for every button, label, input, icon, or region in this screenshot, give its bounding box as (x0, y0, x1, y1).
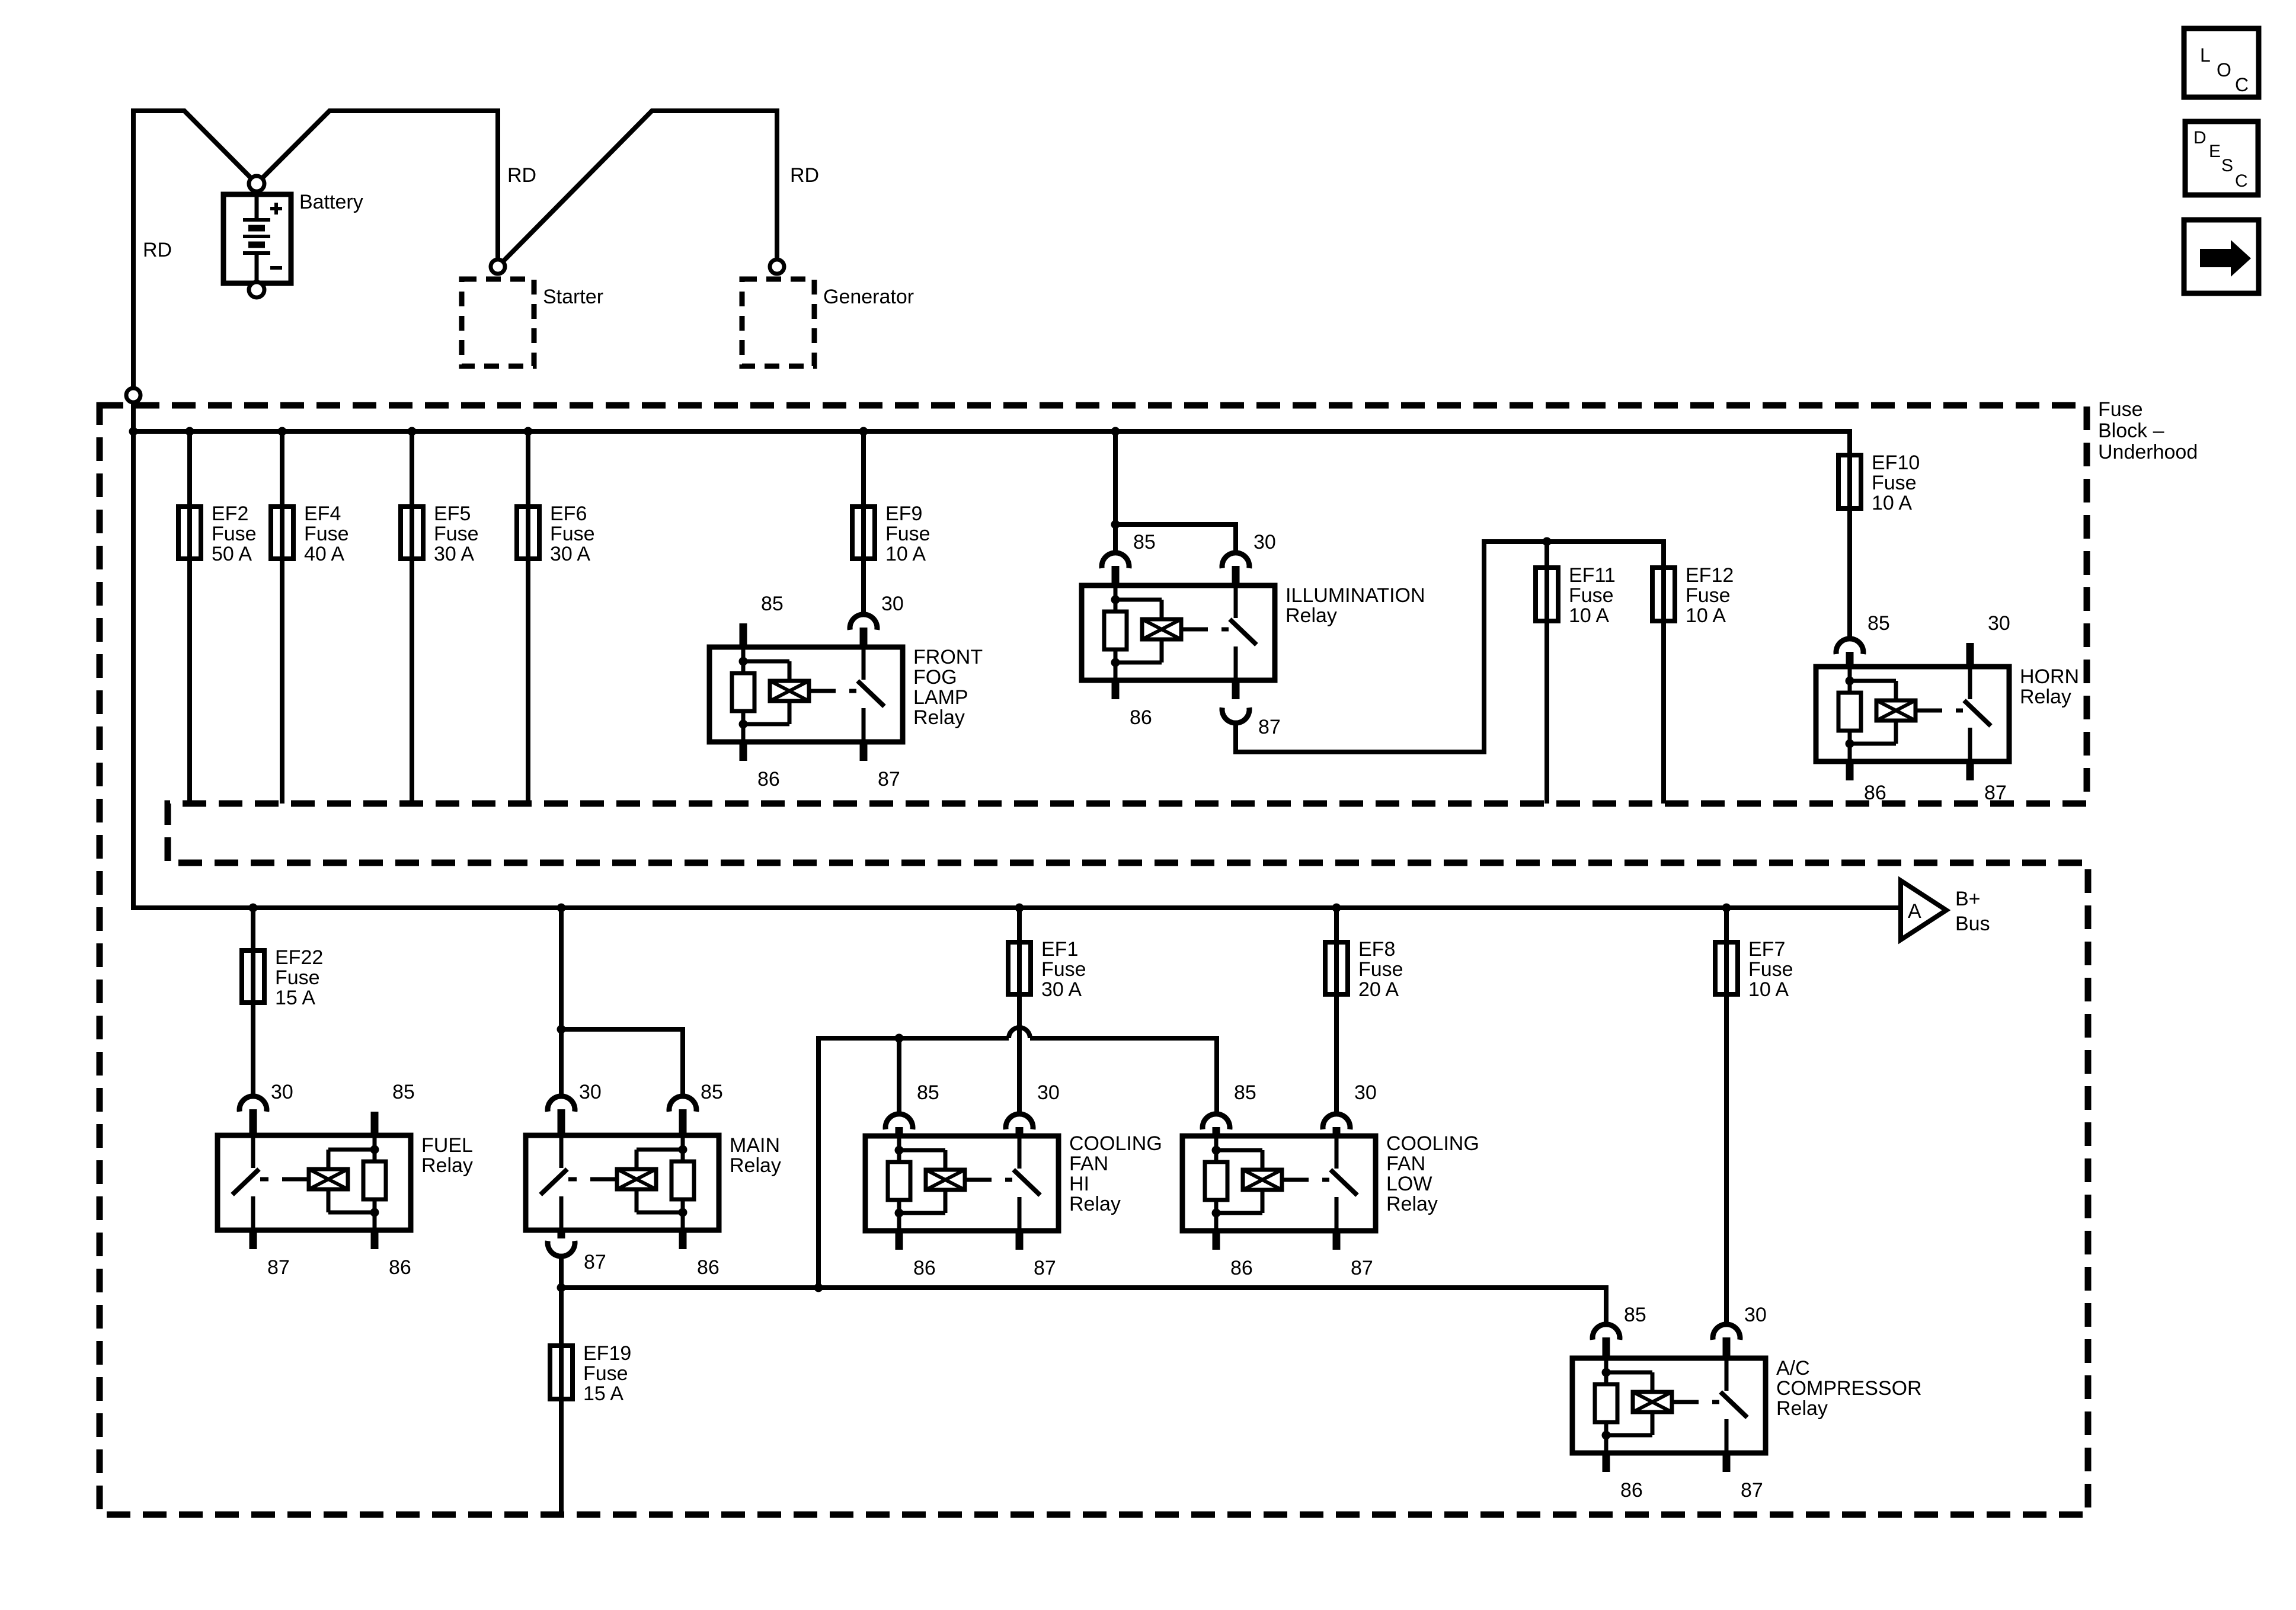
svg-text:Relay: Relay (2020, 686, 2071, 708)
relay A/C COMPRESSOR coil circuit (1604, 1358, 1609, 1372)
connector arc front fog relay pin 30 (850, 614, 877, 630)
wire EF6 column (526, 431, 530, 804)
svg-text:30: 30 (271, 1081, 293, 1103)
junction on upper bus x=320 (186, 427, 194, 436)
relay HORN pin 86 stub (1846, 761, 1854, 780)
connector arc main pin 30 (548, 1096, 575, 1112)
svg-text:Relay: Relay (913, 706, 965, 729)
main pin 87 connector arc and wire (548, 1241, 575, 1256)
svg-text:30: 30 (1744, 1304, 1767, 1326)
relay MAIN pin 86 stub (679, 1230, 687, 1249)
svg-text:Fuse: Fuse (1872, 472, 1917, 494)
legend box arrow (2184, 220, 2259, 293)
legend box DESC (2185, 121, 2258, 195)
svg-text:86: 86 (1230, 1257, 1253, 1279)
junction main 87 / EF19 (557, 1283, 566, 1292)
svg-text:C: C (2235, 171, 2248, 191)
svg-text:EF9: EF9 (885, 502, 922, 525)
svg-text:EF2: EF2 (212, 502, 248, 525)
horn relay pin 30 stub (1966, 643, 1974, 667)
connector arc horn pin 85 (1836, 639, 1863, 654)
svg-text:10 A: 10 A (885, 543, 926, 565)
svg-text:EF7: EF7 (1748, 938, 1785, 961)
svg-text:EF6: EF6 (550, 502, 587, 525)
svg-text:Fuse: Fuse (885, 523, 930, 545)
wire RD battery positive feed to fuse block (133, 111, 1900, 908)
terminal where RD feed enters fuse block (126, 388, 140, 402)
svg-text:FRONT: FRONT (913, 646, 983, 668)
relay HORN box (1816, 667, 2009, 761)
svg-text:15 A: 15 A (275, 987, 315, 1009)
svg-text:87: 87 (1258, 716, 1281, 738)
svg-text:10 A: 10 A (1872, 492, 1912, 514)
relay FUEL box (218, 1135, 411, 1230)
svg-text:LOW: LOW (1386, 1173, 1432, 1195)
svg-text:87: 87 (1034, 1257, 1056, 1279)
svg-text:EF22: EF22 (275, 946, 323, 969)
svg-text:Fuse: Fuse (1358, 958, 1403, 981)
wire EF7 column to a/c compressor pin 30 (1724, 908, 1729, 1324)
wire EF12 column (1661, 542, 1666, 804)
connector arc a/c compressor pin 30 (1713, 1324, 1740, 1340)
svg-text:Starter: Starter (543, 286, 603, 308)
svg-text:30: 30 (1354, 1081, 1377, 1104)
wire EF8 column to cooling fan low pin 30 (1334, 908, 1339, 1114)
svg-text:B+: B+ (1955, 888, 1981, 910)
legend box LOC (2184, 28, 2259, 97)
svg-text:40 A: 40 A (304, 543, 344, 565)
junction illumination feed split (1111, 520, 1120, 529)
svg-text:EF19: EF19 (583, 1342, 631, 1365)
svg-text:30: 30 (1037, 1081, 1060, 1104)
svg-text:30 A: 30 A (550, 543, 590, 565)
svg-text:Fuse: Fuse (304, 523, 349, 545)
svg-text:Fuse: Fuse (212, 523, 257, 545)
wire bus inside fuse block upper row (133, 431, 1850, 455)
svg-text:E: E (2209, 142, 2221, 161)
relay COOLING FAN HI box (865, 1136, 1059, 1231)
svg-text:Relay: Relay (1069, 1193, 1121, 1215)
svg-text:86: 86 (1620, 1479, 1643, 1502)
relay ILLUMINATION box (1082, 585, 1275, 680)
relay HORN pin 87 stub (1966, 761, 1974, 780)
svg-text:30: 30 (1253, 531, 1276, 553)
svg-text:Battery: Battery (299, 191, 363, 213)
svg-text:30: 30 (579, 1081, 602, 1103)
svg-text:86: 86 (389, 1256, 411, 1279)
junction on upper bus x=476 (278, 427, 287, 436)
svg-text:87: 87 (878, 768, 900, 790)
relay A/C COMPRESSOR pin 87 stub (1723, 1453, 1731, 1472)
connector arc main pin 85 (669, 1096, 696, 1112)
battery minus sign (270, 266, 282, 270)
relay FUEL coil circuit (373, 1135, 377, 1150)
svg-text:HI: HI (1069, 1173, 1089, 1195)
wire EF5 column (410, 431, 414, 804)
fuse EF5 (401, 507, 423, 559)
wire to illumination pin 85 (1113, 524, 1118, 553)
svg-text:COMPRESSOR: COMPRESSOR (1776, 1377, 1922, 1400)
relay ILLUMINATION switch (1234, 585, 1238, 618)
svg-text:Fuse: Fuse (550, 523, 595, 545)
svg-text:87: 87 (1741, 1479, 1763, 1502)
svg-text:A/C: A/C (1776, 1357, 1810, 1379)
fuse EF6 (517, 507, 539, 559)
starter terminal (491, 260, 505, 274)
svg-text:LAMP: LAMP (913, 686, 968, 709)
connector arc cooling fan low pin 30 (1323, 1114, 1350, 1129)
relay COOLING FAN LOW pin 87 stub (1333, 1231, 1341, 1250)
svg-text:85: 85 (917, 1081, 939, 1104)
relay MAIN pin 87 stub (558, 1230, 565, 1238)
relay COOLING FAN HI switch (1018, 1136, 1022, 1169)
svg-text:Fuse: Fuse (1041, 958, 1086, 981)
wire net to cooling fan relay coils (818, 1038, 1009, 1288)
relay FUEL pin 86 stub (371, 1230, 379, 1249)
wire EF9 column to front fog lamp relay pin 30 (861, 431, 866, 614)
svg-text:86: 86 (1130, 706, 1152, 729)
fuse EF19 (550, 1346, 573, 1399)
svg-text:86: 86 (913, 1257, 936, 1279)
connector arc cooling fan low pin 85 (1203, 1114, 1230, 1129)
battery plus sign (270, 207, 282, 210)
junction EF11 tap (1543, 537, 1552, 546)
svg-text:RD: RD (143, 239, 172, 261)
svg-text:Fuse: Fuse (2098, 398, 2143, 421)
junction on upper bus x=1882 (1111, 427, 1120, 436)
svg-text:EF12: EF12 (1686, 564, 1734, 587)
wire to main pin 30 (559, 1029, 564, 1096)
fuse EF1 (1008, 942, 1031, 994)
svg-text:Relay: Relay (1285, 604, 1337, 627)
relay COOLING FAN LOW pin 86 stub (1213, 1231, 1220, 1250)
fuse EF10 (1838, 455, 1861, 508)
connector arc fuel pin 30 (239, 1096, 267, 1112)
svg-text:Generator: Generator (823, 286, 914, 308)
junction main feed split (557, 1025, 566, 1034)
svg-text:Bus: Bus (1955, 913, 1990, 935)
battery bottom terminal (249, 282, 264, 297)
svg-text:86: 86 (697, 1256, 720, 1279)
fuse EF9 (852, 507, 875, 559)
svg-text:EF1: EF1 (1041, 938, 1078, 961)
svg-text:MAIN: MAIN (730, 1134, 780, 1157)
wire RD battery to starter (257, 111, 498, 267)
relay COOLING FAN HI pin 86 stub (896, 1231, 903, 1250)
svg-text:Fuse: Fuse (1569, 584, 1614, 607)
svg-text:10 A: 10 A (1686, 604, 1726, 627)
svg-text:87: 87 (584, 1251, 606, 1273)
svg-text:87: 87 (1984, 782, 2007, 804)
svg-text:L: L (2200, 44, 2211, 66)
relay FRONT FOG LAMP coil circuit (741, 647, 746, 661)
junction on B+ bus x=947 (557, 904, 566, 913)
svg-text:FUEL: FUEL (421, 1134, 473, 1157)
junction cooling fan hi 85 tap (895, 1034, 904, 1043)
svg-text:85: 85 (1868, 612, 1890, 635)
svg-text:Fuse: Fuse (434, 523, 479, 545)
svg-text:30 A: 30 A (434, 543, 474, 565)
relay FUEL pin 87 stub (250, 1230, 257, 1249)
relay A/C COMPRESSOR switch (1725, 1358, 1729, 1391)
wire main relay feed from B+ bus (559, 908, 564, 1029)
svg-text:Relay: Relay (730, 1154, 781, 1177)
junction on upper bus x=695 (408, 427, 417, 436)
svg-text:Fuse: Fuse (275, 966, 320, 989)
relay HORN coil circuit (1848, 667, 1852, 681)
svg-text:FAN: FAN (1386, 1153, 1425, 1175)
svg-text:D: D (2193, 128, 2207, 148)
svg-text:COOLING: COOLING (1069, 1132, 1162, 1155)
fuse block underhood dashed outline (100, 405, 2088, 1515)
wire EF10 column to horn relay pin 85 (1847, 455, 1852, 639)
svg-text:30 A: 30 A (1041, 978, 1082, 1001)
relay A/C COMPRESSOR box (1572, 1358, 1766, 1453)
relay A/C COMPRESSOR pin 86 stub (1603, 1453, 1610, 1472)
wire EF2 column (187, 431, 192, 804)
relay FUEL switch (251, 1135, 255, 1168)
svg-text:EF8: EF8 (1358, 938, 1395, 961)
wire EF22 column to fuel relay pin 30 (251, 908, 255, 1096)
relay COOLING FAN HI pin 87 stub (1016, 1231, 1024, 1250)
relay MAIN coil circuit (681, 1135, 685, 1150)
junction on upper bus x=225 (129, 427, 138, 436)
fuse EF12 (1652, 568, 1675, 621)
front fog relay pin 85 stub (740, 623, 747, 647)
wire RD starter to generator (498, 111, 777, 267)
svg-text:Fuse: Fuse (1748, 958, 1793, 981)
relay COOLING FAN LOW switch (1335, 1136, 1339, 1169)
svg-text:Block –: Block – (2098, 420, 2164, 442)
relay HORN switch (1968, 667, 1972, 699)
svg-text:Fuse: Fuse (1686, 584, 1731, 607)
fuse EF11 (1536, 568, 1558, 621)
junction on B+ bus x=1720 (1015, 904, 1024, 913)
wire EF19 column (559, 1288, 564, 1515)
connector arc a/c compressor pin 85 (1593, 1324, 1620, 1340)
wire EF1 column to cooling fan hi pin 30 (1017, 908, 1022, 1114)
fuel relay pin 85 stub (371, 1112, 379, 1135)
svg-text:87: 87 (267, 1256, 290, 1279)
svg-text:20 A: 20 A (1358, 978, 1399, 1001)
svg-text:RD: RD (507, 164, 536, 187)
svg-text:85: 85 (1234, 1081, 1256, 1104)
svg-text:Relay: Relay (421, 1154, 473, 1177)
relay MAIN switch (559, 1135, 564, 1168)
junction netA riser (814, 1283, 823, 1292)
starter dashed box (462, 279, 534, 366)
fuse EF2 (178, 507, 201, 559)
relay COOLING FAN HI coil circuit (897, 1136, 901, 1150)
svg-text:85: 85 (392, 1081, 415, 1103)
wire hop over EF1 column (1009, 1028, 1030, 1038)
svg-text:Relay: Relay (1776, 1397, 1828, 1420)
generator terminal (770, 260, 784, 274)
fuse EF22 (242, 950, 264, 1003)
junction on B+ bus x=2913 (1722, 904, 1731, 913)
svg-text:30: 30 (1988, 612, 2010, 635)
svg-text:50 A: 50 A (212, 543, 252, 565)
relay ILLUMINATION coil circuit (1114, 585, 1118, 600)
relay COOLING FAN LOW coil circuit (1214, 1136, 1219, 1150)
svg-text:C: C (2235, 74, 2249, 95)
svg-text:10 A: 10 A (1748, 978, 1789, 1001)
junction on upper bus x=1457 (859, 427, 868, 436)
svg-text:S: S (2221, 156, 2233, 175)
wire branch to main pin 85 (561, 1029, 683, 1096)
svg-text:15 A: 15 A (583, 1382, 623, 1405)
fuse EF7 (1715, 942, 1738, 994)
svg-text:FAN: FAN (1069, 1153, 1108, 1175)
relay FRONT FOG LAMP box (709, 647, 903, 742)
svg-text:EF11: EF11 (1569, 564, 1616, 587)
svg-text:Fuse: Fuse (583, 1362, 628, 1385)
svg-text:85: 85 (1624, 1304, 1646, 1326)
wire EF4 column (280, 431, 284, 804)
wire EF11 column (1544, 542, 1549, 804)
svg-text:30: 30 (881, 593, 904, 615)
wire cooling fan hi pin 85 drop (897, 1038, 901, 1114)
svg-text:Underhood: Underhood (2098, 441, 2198, 463)
svg-text:EF4: EF4 (304, 502, 341, 525)
relay ILLUMINATION pin 87 stub (1232, 680, 1240, 699)
svg-text:O: O (2217, 59, 2231, 81)
battery top terminal (249, 176, 264, 191)
connector arc illumination pin 30 (1222, 553, 1249, 568)
relay FRONT FOG LAMP pin 86 stub (740, 742, 747, 761)
battery G6 symbol (223, 194, 291, 283)
svg-text:EF10: EF10 (1872, 452, 1920, 474)
relay COOLING FAN LOW box (1182, 1136, 1376, 1231)
svg-text:HORN: HORN (2020, 665, 2079, 688)
svg-text:FOG: FOG (913, 666, 957, 689)
junction on upper bus x=891 (524, 427, 533, 436)
connector arc cooling fan hi pin 85 (885, 1114, 913, 1129)
svg-text:RD: RD (790, 164, 819, 187)
illumination pin 87 connector arc and wire (1222, 708, 1249, 723)
junction on B+ bus x=2255 (1332, 904, 1341, 913)
svg-text:10 A: 10 A (1569, 604, 1609, 627)
svg-text:COOLING: COOLING (1386, 1132, 1479, 1155)
fuse EF4 (271, 507, 293, 559)
svg-text:A: A (1908, 900, 1921, 923)
wire net from main 87 to a/c compressor pin 85 (561, 1288, 1606, 1324)
relay MAIN box (526, 1135, 719, 1230)
fuse EF8 (1325, 942, 1348, 994)
wire branch to illumination pin 30 (1115, 524, 1236, 553)
svg-text:85: 85 (701, 1081, 723, 1103)
svg-text:ILLUMINATION: ILLUMINATION (1285, 584, 1425, 607)
generator dashed box (742, 279, 814, 366)
svg-text:86: 86 (757, 768, 780, 790)
svg-text:87: 87 (1351, 1257, 1373, 1279)
svg-text:86: 86 (1864, 782, 1886, 804)
wire illumination relay feed (1113, 431, 1118, 524)
svg-text:EF5: EF5 (434, 502, 471, 525)
relay ILLUMINATION pin 86 stub (1112, 680, 1120, 699)
B+ bus arrow connector A (1901, 881, 1946, 940)
svg-text:85: 85 (1133, 531, 1156, 553)
connector arc illumination pin 85 (1102, 553, 1129, 568)
junction on B+ bus x=427 (249, 904, 258, 913)
relay FRONT FOG LAMP switch (862, 647, 866, 680)
relay FRONT FOG LAMP pin 87 stub (860, 742, 868, 761)
connector arc cooling fan hi pin 30 (1006, 1114, 1033, 1129)
svg-text:Relay: Relay (1386, 1193, 1438, 1215)
svg-text:85: 85 (761, 593, 784, 615)
